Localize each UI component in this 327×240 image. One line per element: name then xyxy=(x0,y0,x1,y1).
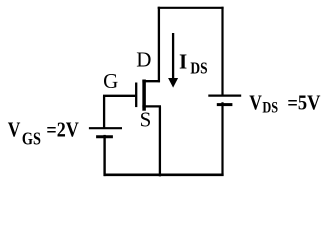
wire: source vertical xyxy=(159,106,161,176)
current arrow IDS shaft xyxy=(172,33,174,79)
current arrow IDS head xyxy=(168,78,178,88)
wire: top horizontal (drain to VDS+) xyxy=(158,7,224,9)
svg-text:I: I xyxy=(179,50,187,74)
wire: gate horizontal xyxy=(103,95,135,97)
transistor Q1 source connector xyxy=(142,105,161,107)
battery V2 positive long plate xyxy=(208,94,241,96)
svg-text:GS: GS xyxy=(22,128,41,148)
svg-text:S: S xyxy=(140,107,152,131)
battery V1 negative short plate xyxy=(96,135,113,138)
svg-text:G: G xyxy=(103,69,118,93)
wire: left vertical upper (gate to VGS+) xyxy=(103,96,105,128)
svg-text:V: V xyxy=(8,117,21,141)
transistor Q1 drain connector xyxy=(142,80,160,82)
wire: left vertical lower (VGS- to bottom) xyxy=(103,135,105,176)
wire: drain vertical xyxy=(158,7,160,83)
transistor Q1 gate bar xyxy=(135,83,137,108)
svg-text:=5V: =5V xyxy=(287,91,320,115)
wire: right vertical lower xyxy=(221,102,223,176)
svg-text:D: D xyxy=(136,48,151,72)
svg-text:DS: DS xyxy=(190,59,207,78)
svg-text:V: V xyxy=(249,91,262,115)
wire: right vertical upper (to VDS battery) xyxy=(221,7,223,96)
transistor Q1 channel bar xyxy=(142,80,146,111)
svg-text:=2V: =2V xyxy=(46,117,78,141)
battery V1 positive long plate xyxy=(89,127,122,129)
wire: bottom horizontal xyxy=(104,174,224,177)
svg-text:DS: DS xyxy=(262,100,278,117)
battery V2 negative short plate xyxy=(217,103,233,106)
